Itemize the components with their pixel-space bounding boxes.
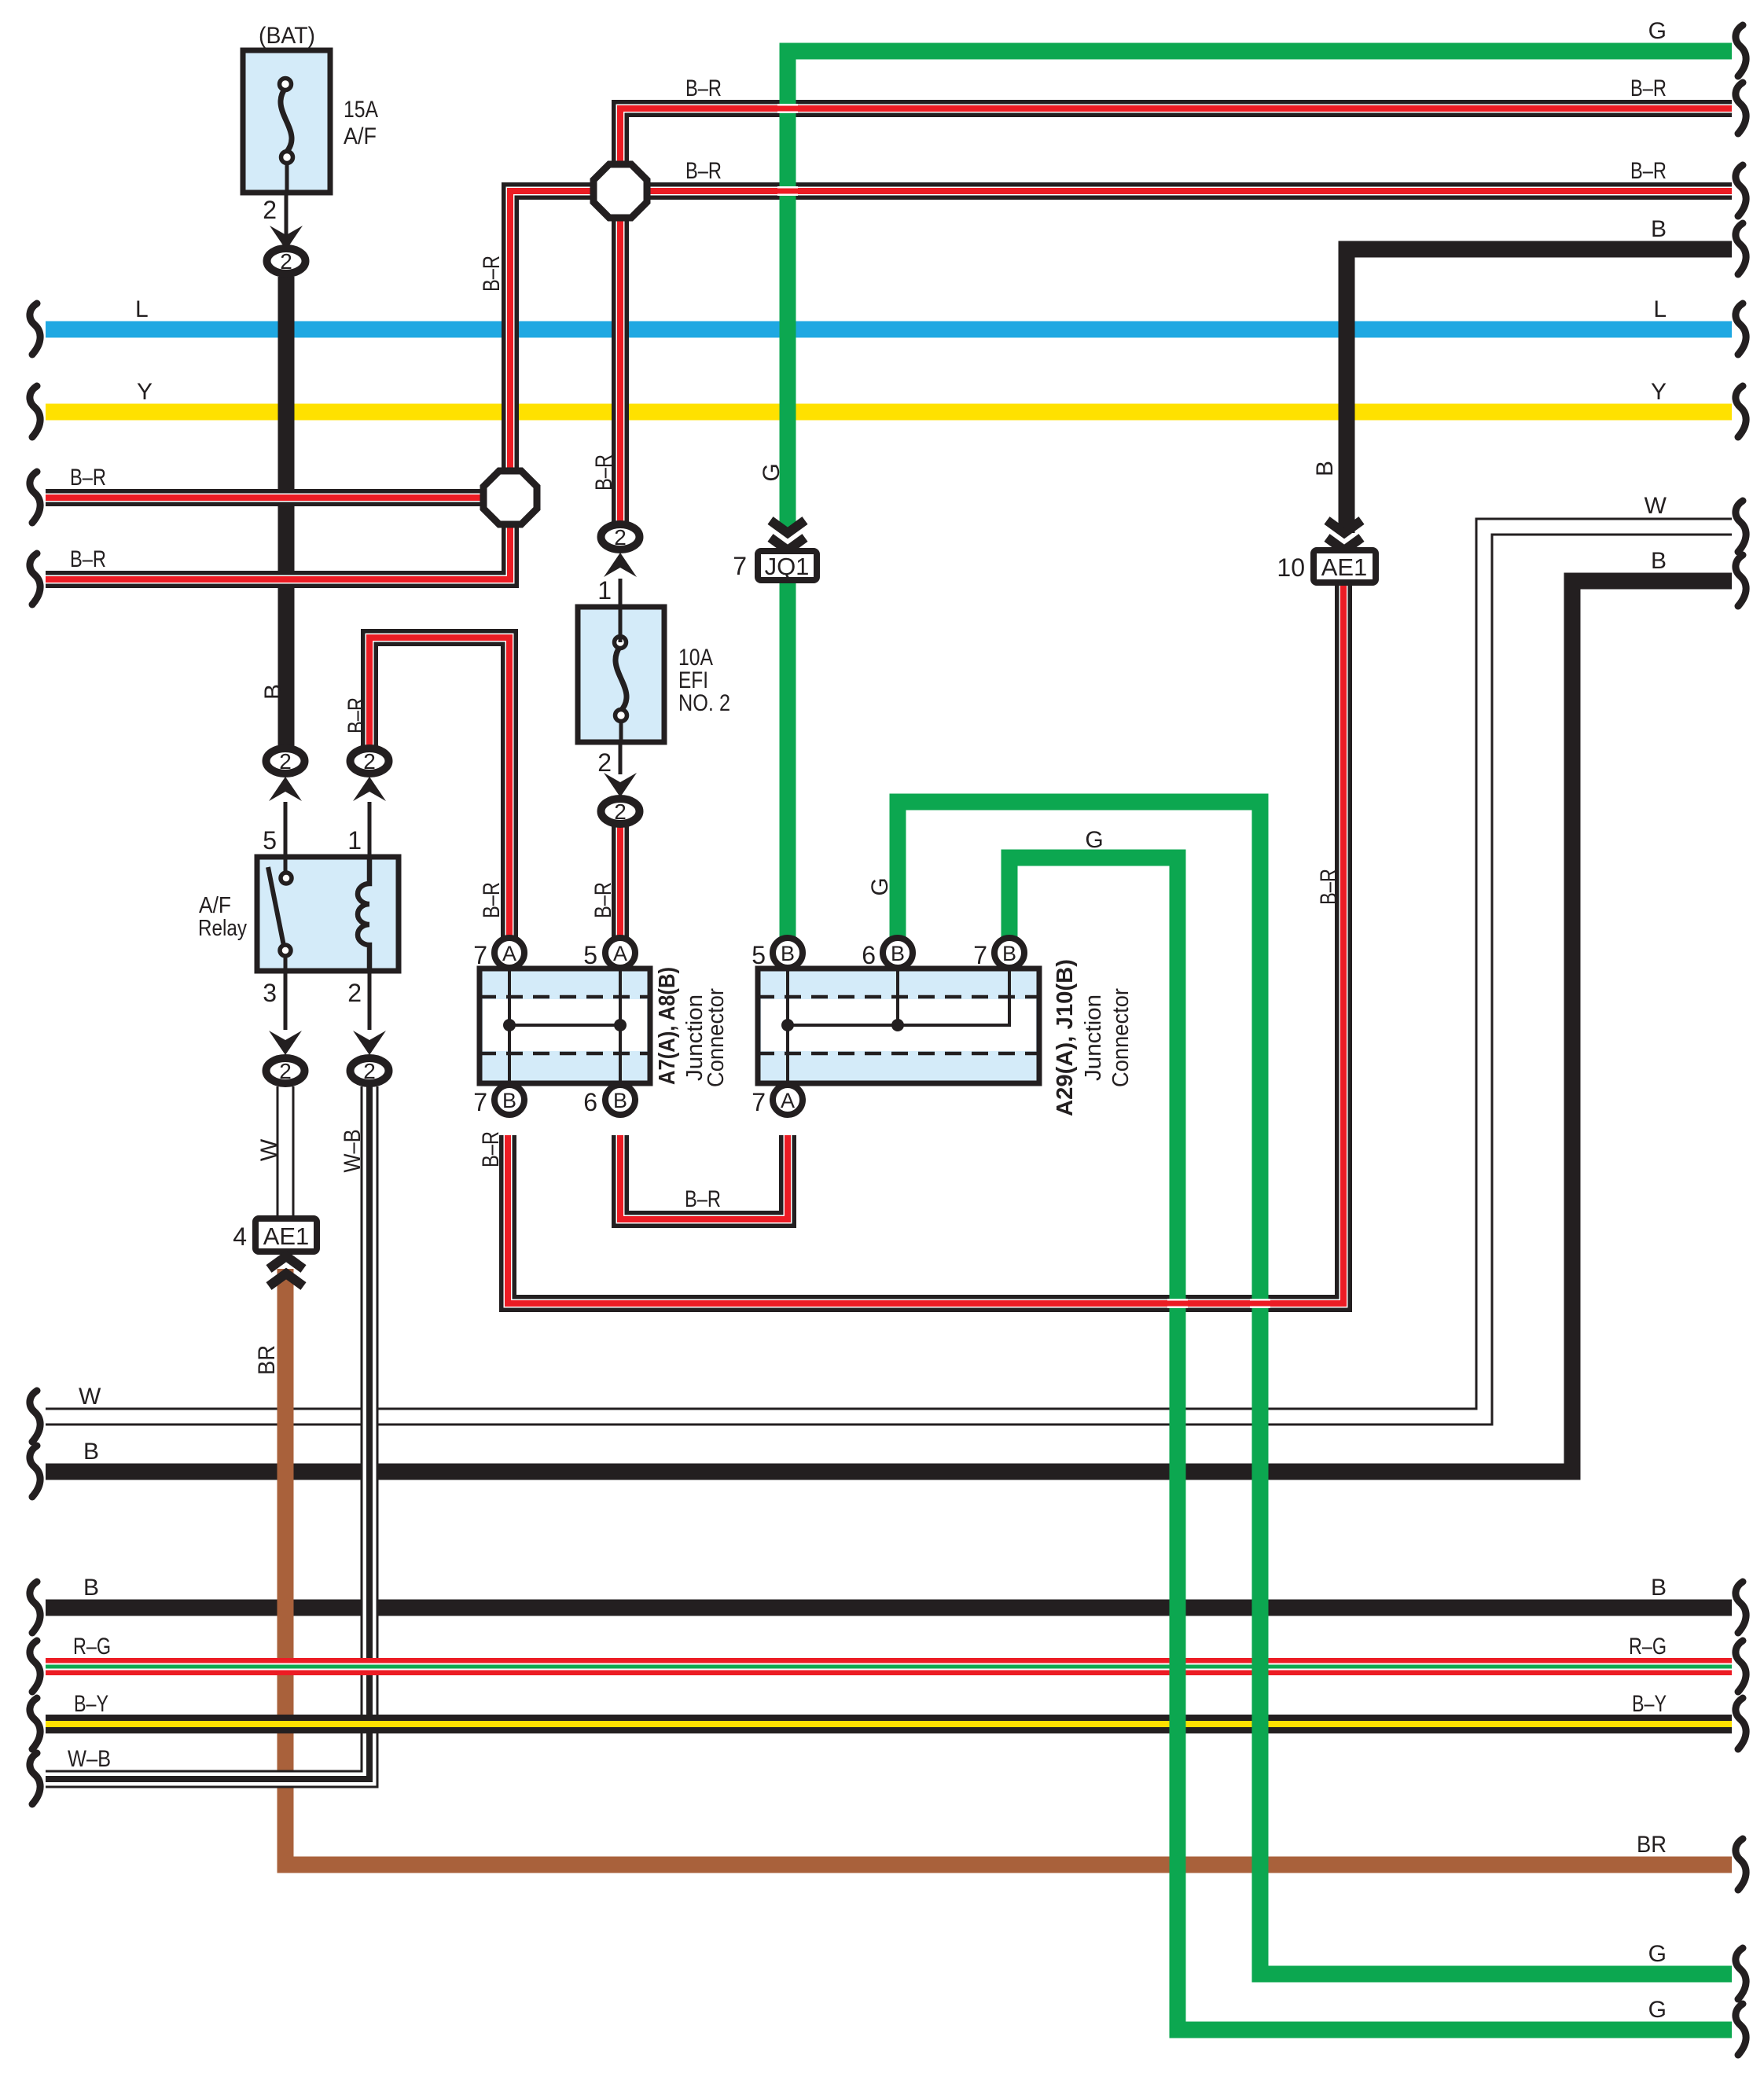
wire B-R stripe over green crossing at x=1498 y=1658 (1167, 1299, 1188, 1308)
arrow into connector relay pin 1 (353, 777, 386, 801)
wire R-G horizontal (46, 1658, 1732, 1675)
svg-text:7: 7 (752, 1088, 766, 1116)
svg-text:B: B (891, 942, 905, 965)
svg-text:A29(A), J10(B): A29(A), J10(B) (1053, 959, 1078, 1116)
wire B right-edge to AE1-10 (1347, 249, 1732, 533)
connector 2 below relay pin 2 (351, 1058, 389, 1083)
wire G right-edge to JQ1 (788, 51, 1732, 533)
wire B-R relay pin 1 hook to junction pin 7A (369, 638, 509, 937)
left edge brace B (30, 1446, 40, 1497)
svg-text:B–R: B–R (70, 546, 106, 572)
wire B from fuse to relay pin 5 (278, 277, 295, 747)
arrow into connector fuse F1 (270, 226, 303, 250)
svg-text:B–R: B–R (70, 465, 106, 491)
svg-text:B: B (1651, 1575, 1667, 1601)
wire B-R stripe over green crossing at x=1002 y=243 (777, 186, 798, 196)
svg-text:G: G (1648, 1941, 1667, 1967)
junction connector A7(A), A8(B) box (480, 969, 650, 1083)
pin 5A junction connector 1 (605, 938, 635, 968)
svg-text:AE1: AE1 (1321, 553, 1368, 581)
svg-text:A/F: A/F (344, 123, 377, 149)
svg-text:A: A (502, 942, 516, 965)
svg-text:B–R: B–R (479, 882, 505, 918)
right edge brace B (1736, 223, 1746, 274)
wire G JQ1 to junction pin 5B (780, 582, 796, 937)
svg-text:B–R: B–R (685, 158, 722, 184)
arrow into connector relay pin 2 (353, 1031, 386, 1055)
svg-text:2: 2 (280, 249, 292, 274)
pin 6B junction connector 1 (605, 1085, 635, 1115)
svg-text:15A: 15A (344, 97, 378, 123)
left edge brace B-R (30, 553, 40, 605)
svg-text:R–G: R–G (1629, 1634, 1667, 1660)
svg-text:G: G (759, 463, 785, 481)
svg-text:B–R: B–R (478, 1131, 504, 1167)
junction connector 1 internal wires (508, 969, 511, 1083)
svg-text:Y: Y (1651, 379, 1667, 405)
wire relay pin 3 lead (284, 971, 288, 1030)
right edge brace BR (1736, 1839, 1746, 1890)
svg-text:B: B (260, 684, 286, 700)
svg-text:5: 5 (263, 826, 277, 855)
wire EFI fuse pin 2 lead (619, 742, 623, 774)
svg-text:2: 2 (279, 1059, 292, 1083)
right edge brace Y (1736, 386, 1746, 437)
svg-text:B–R: B–R (685, 1186, 721, 1212)
wire B-R stripe over green crossing at x=1002 y=138 (777, 104, 798, 113)
svg-text:B–Y: B–Y (1632, 1691, 1667, 1717)
fuse F1 15A A/F box (243, 50, 330, 193)
svg-text:B: B (1651, 216, 1667, 242)
right edge brace G (1736, 1948, 1746, 1999)
svg-text:B: B (83, 1439, 99, 1465)
right edge brace L (1736, 303, 1746, 355)
svg-text:Y: Y (137, 379, 153, 405)
pin 7A junction connector 2 (773, 1085, 803, 1115)
svg-text:B–R: B–R (1630, 75, 1667, 101)
connector 2 above relay pin 1 (351, 748, 389, 774)
svg-text:W–B: W–B (340, 1130, 366, 1173)
svg-text:AE1: AE1 (263, 1222, 310, 1250)
svg-text:W: W (1645, 493, 1667, 519)
svg-text:W: W (79, 1384, 101, 1410)
wire relay pin 1 lead (368, 802, 372, 857)
wire B-R junction 7B to AE1-10 (508, 583, 1343, 1303)
right edge brace B (1736, 1582, 1746, 1633)
svg-text:B: B (613, 1089, 627, 1112)
wire B-R left-edge to octagon J2 bottom (46, 487, 510, 579)
svg-text:G: G (1648, 18, 1667, 44)
right edge brace B (1736, 555, 1746, 606)
svg-text:5: 5 (583, 941, 597, 969)
svg-text:5: 5 (752, 941, 766, 969)
wire B left-edge up to right-edge (46, 581, 1732, 1472)
connector AE1 pin 4 box (255, 1219, 317, 1252)
svg-text:G: G (867, 877, 893, 895)
wire BR brown AE1-4 to right-edge (285, 1269, 1732, 1865)
relay A/F Relay box (257, 857, 399, 971)
left edge brace Y (30, 386, 40, 437)
connector AE1 pin 10 box (1314, 550, 1376, 583)
arrow chevrons into JQ1 (770, 520, 805, 533)
svg-text:2: 2 (363, 1059, 376, 1083)
fuse F2 10A EFI NO.2 box (578, 607, 664, 742)
svg-text:Relay: Relay (198, 916, 247, 941)
svg-text:2: 2 (279, 749, 292, 774)
fuse F1 element (281, 88, 292, 153)
right edge brace G (1736, 25, 1746, 76)
connector 2 above relay pin 5 (266, 748, 305, 774)
svg-text:2: 2 (263, 196, 277, 224)
connector JQ1 box (758, 551, 817, 580)
left edge brace B (30, 1582, 40, 1633)
left edge brace B-Y (30, 1698, 40, 1749)
connector 2 above EFI fuse (601, 524, 640, 550)
svg-text:B: B (1651, 548, 1667, 574)
svg-text:B–R: B–R (590, 882, 616, 918)
svg-text:7: 7 (473, 941, 487, 969)
svg-text:2: 2 (597, 748, 612, 777)
wire EFI fuse pin 1 lead (619, 579, 623, 607)
junction octagon J1 (594, 164, 647, 218)
wire fuse F2 bottom lead (619, 720, 623, 742)
svg-text:L: L (1653, 296, 1667, 322)
svg-text:JQ1: JQ1 (765, 553, 810, 580)
wire G junction 7B to right-edge (1009, 858, 1732, 2030)
connector 2 below fuse F1 (267, 248, 306, 274)
svg-text:NO. 2: NO. 2 (678, 690, 730, 716)
left edge brace R-G (30, 1641, 40, 1692)
right edge brace B-R (1736, 83, 1746, 134)
left edge brace B-R (30, 472, 40, 523)
svg-text:Connector: Connector (704, 988, 729, 1087)
svg-text:B: B (502, 1089, 516, 1112)
arrow chevrons into AE1-4 (269, 1256, 303, 1269)
svg-text:B–R: B–R (1316, 869, 1342, 905)
svg-text:L: L (135, 296, 149, 322)
wire G junction 6B to right-edge (898, 802, 1732, 1974)
svg-text:4: 4 (233, 1222, 247, 1251)
left edge brace W-B (30, 1753, 40, 1804)
right edge brace W (1736, 501, 1746, 552)
svg-text:6: 6 (583, 1088, 597, 1116)
connector 2 below EFI fuse (601, 799, 640, 824)
arrow into connector relay pin 5 (269, 777, 302, 801)
svg-text:B: B (83, 1575, 99, 1601)
arrow into connector below EFI fuse (604, 773, 637, 797)
wire B-Y horizontal (46, 1715, 1732, 1733)
svg-text:B–Y: B–Y (74, 1691, 108, 1717)
right edge brace B-Y (1736, 1698, 1746, 1749)
svg-text:B–R: B–R (685, 75, 722, 101)
pin 7A junction connector 1 (494, 938, 524, 968)
wire relay pin 2 lead (368, 971, 372, 1030)
wire W-B relay pin 2 to left-edge (46, 1086, 369, 1779)
svg-text:2: 2 (363, 749, 376, 774)
junction octagon J2 (483, 471, 537, 524)
pin 7B junction connector 2 (994, 938, 1024, 968)
svg-text:7: 7 (473, 1088, 487, 1116)
svg-text:A: A (781, 1089, 795, 1112)
svg-text:A: A (613, 942, 627, 965)
svg-text:2: 2 (614, 525, 627, 550)
wire B-R second right-edge through octagon J1 to octagon J2 (510, 191, 1732, 498)
junction connector A29(A), J10(B) box (758, 969, 1039, 1083)
svg-text:B: B (1002, 942, 1016, 965)
wire B-R stripe over green crossing at x=1603 y=1658 (1250, 1299, 1270, 1308)
svg-text:B–R: B–R (344, 697, 369, 733)
svg-text:B: B (781, 942, 795, 965)
fuse F2 element (616, 646, 627, 711)
svg-text:B–R: B–R (479, 255, 505, 292)
svg-text:7: 7 (973, 941, 987, 969)
svg-text:(BAT): (BAT) (259, 23, 315, 49)
svg-text:BR: BR (1637, 1832, 1667, 1858)
wire fuse F1 pin 2 lead (285, 193, 288, 248)
svg-text:G: G (1648, 1997, 1667, 2023)
wire relay pin 5 lead (284, 802, 288, 857)
svg-text:3: 3 (263, 979, 277, 1007)
arrow into connector above EFI fuse (604, 553, 637, 577)
relay switch contact (284, 857, 288, 871)
pin 6B junction connector 2 (883, 938, 913, 968)
svg-text:1: 1 (347, 826, 362, 855)
arrow into connector relay pin 3 (269, 1031, 302, 1055)
svg-text:BR: BR (254, 1345, 280, 1375)
wire B-R left-edge to octagon J2 (46, 489, 519, 506)
relay coil (358, 857, 369, 971)
right edge brace R-G (1736, 1641, 1746, 1692)
arrow chevrons into AE1-10 (1327, 520, 1362, 533)
svg-text:W–B: W–B (68, 1746, 111, 1772)
svg-text:G: G (1085, 827, 1103, 853)
svg-text:B: B (1312, 461, 1338, 476)
wire W relay pin 3 to AE1-4 (277, 1086, 295, 1220)
svg-text:B–R: B–R (1630, 158, 1667, 184)
svg-text:7: 7 (733, 552, 747, 580)
wire B-R EFI fuse to junction pin 5A (612, 826, 629, 937)
svg-text:2: 2 (614, 800, 627, 824)
svg-text:A/F: A/F (199, 893, 231, 918)
wire B-R top right-edge through octagon J1 to EFI fuse (620, 108, 1732, 522)
svg-text:R–G: R–G (73, 1634, 111, 1660)
svg-text:Connector: Connector (1108, 988, 1134, 1087)
junction connector 2 internal wires (786, 969, 789, 1083)
pin 5B junction connector 2 (773, 938, 803, 968)
svg-text:10: 10 (1277, 553, 1305, 582)
svg-text:A7(A), A8(B): A7(A), A8(B) (655, 967, 680, 1085)
wire B bottom horizontal (46, 1600, 1732, 1616)
wire W white net left-edge to right-edge (46, 527, 1732, 1417)
right edge brace B-R (1736, 165, 1746, 216)
wire B-R junction 6B to junction 7A U-link (620, 1135, 788, 1219)
svg-text:1: 1 (597, 576, 612, 605)
connector 2 below relay pin 3 (266, 1058, 305, 1083)
wire fuse F2 top lead (619, 607, 623, 642)
left edge brace W (30, 1391, 40, 1442)
wire fuse F1 lead (285, 162, 289, 193)
svg-text:2: 2 (347, 979, 362, 1007)
svg-text:B–R: B–R (591, 454, 617, 491)
pin 7B junction connector 1 (494, 1085, 524, 1115)
svg-text:6: 6 (862, 941, 876, 969)
wire Y yellow horizontal (46, 404, 1732, 421)
svg-text:Junction: Junction (1081, 994, 1106, 1081)
left edge brace L (30, 303, 40, 355)
right edge brace G (1736, 2004, 1746, 2055)
svg-text:W: W (256, 1138, 282, 1161)
wire L blue horizontal (46, 322, 1732, 338)
